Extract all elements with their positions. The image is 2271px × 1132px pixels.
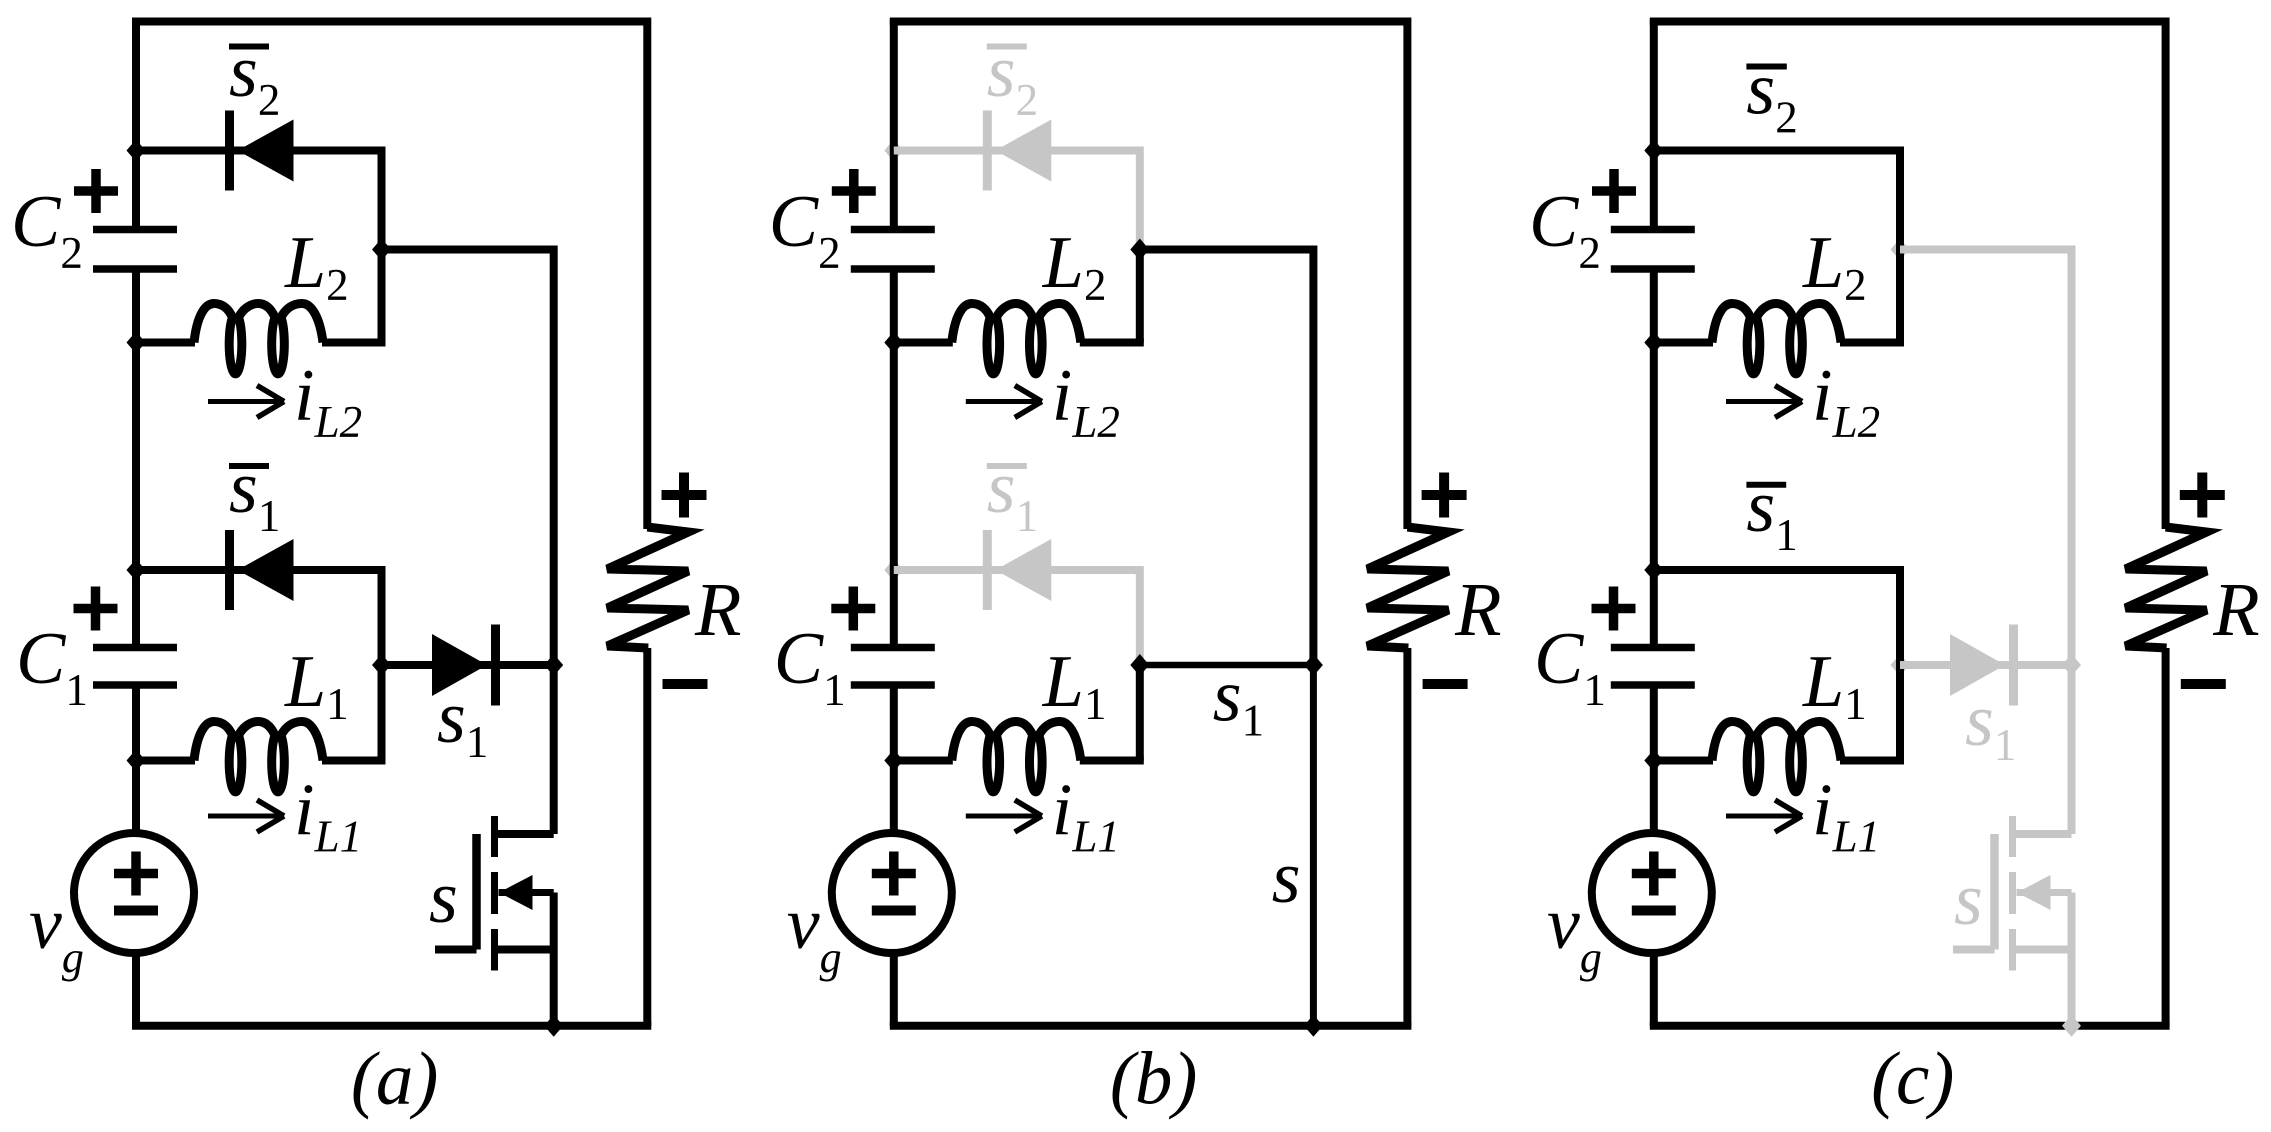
node junction (b)	[1130, 239, 1149, 261]
node junction (a)	[127, 332, 146, 354]
node junction (b)	[884, 332, 903, 354]
wire: right rail top (c)	[2162, 18, 2170, 530]
wire: bottom rail (b)	[890, 1022, 1412, 1030]
svg-text:(c): (c)	[1871, 1038, 1954, 1121]
inductor L2 (b)	[894, 339, 953, 347]
wire: s-bar-2 branch (b)	[894, 147, 1140, 155]
wire: corner column lower (a)	[378, 566, 386, 761]
wire: source to bottom (b)	[890, 950, 898, 1026]
svg-text:R: R	[694, 568, 741, 652]
label R plus terminal (a)	[662, 490, 707, 500]
wire: left rail top (b)	[890, 20, 898, 230]
wire: left rail top (c)	[1650, 20, 1658, 230]
capacitor C1 (c)	[1611, 644, 1695, 652]
label R plus terminal (c)	[2180, 490, 2225, 500]
wire: s-bar-2 branch (a)	[136, 147, 382, 155]
wire: s1 branch (a)	[382, 661, 554, 669]
node junction gray (b)	[884, 140, 903, 162]
wire: left rail top (a)	[132, 20, 140, 230]
label C1 (b)	[831, 604, 875, 614]
wire: left rail to source (a)	[132, 685, 140, 836]
label i_L2 with arrow (b)	[966, 399, 1039, 404]
diode s-bar-2 (b)	[983, 111, 992, 191]
svg-text:s: s	[1954, 859, 1983, 941]
label C1 (c)	[1592, 604, 1636, 614]
transistor s: gate bar and gate lead	[472, 834, 481, 950]
wire: top rail (b)	[890, 18, 1408, 26]
label C1 (a)	[74, 604, 118, 614]
svg-text:s: s	[1272, 837, 1301, 919]
transistor s: channel bars	[2009, 816, 2016, 857]
wire: source to bottom (a)	[132, 950, 140, 1026]
wire: right rail bottom (a)	[643, 648, 651, 1026]
wire: node2 row to mid column (b)	[1140, 246, 1314, 254]
wire: s-bar-1 branch (c)	[1654, 566, 1900, 574]
wire: right rail bottom (b)	[1403, 648, 1411, 1026]
wire: right rail top (a)	[643, 18, 651, 530]
inductor L2 (a)	[136, 339, 195, 347]
transistor s: body-diode arrow	[2017, 889, 2072, 896]
wire: source to bottom node (a)	[550, 893, 558, 1026]
wire: mid column gray (c)	[2068, 665, 2076, 834]
wire: corner column upper (a)	[378, 147, 386, 343]
inductor L1 (b)	[894, 757, 953, 765]
capacitor C1 (a)	[93, 644, 177, 652]
transistor s: gate bar and gate lead	[1990, 834, 1999, 950]
wire: node2 row to mid column (c)	[1900, 246, 2072, 254]
capacitor C2 (a)	[93, 226, 177, 234]
node junction (b)	[1304, 654, 1323, 676]
transistor s: source lead	[2013, 946, 2072, 954]
node junction (b)	[1304, 1015, 1323, 1037]
wire: left rail mid (a)	[132, 269, 140, 648]
wire: s-bar-2 branch (c)	[1654, 147, 1900, 155]
label R minus terminal (a)	[663, 679, 708, 689]
svg-text:R: R	[1454, 568, 1501, 652]
wire: closed switch s (b)	[1310, 665, 1317, 1026]
node junction (a)	[372, 654, 391, 676]
node junction (a)	[372, 239, 391, 261]
label i_L2 with arrow (c)	[1726, 399, 1799, 404]
diode s-bar-1 (a)	[225, 530, 234, 610]
wire: left rail to source (c)	[1650, 685, 1658, 836]
node junction (c)	[1644, 750, 1663, 772]
label i_L2 with arrow (a)	[208, 399, 281, 404]
source vg (a)	[74, 833, 194, 953]
node junction (c)	[1644, 559, 1663, 581]
resistor R (c)	[2126, 527, 2207, 648]
diode s1 (gray, c)	[1950, 634, 2005, 696]
capacitor C2 (c)	[1611, 226, 1695, 234]
label s-bar-2 (c)	[1746, 64, 1786, 70]
wire: right rail bottom (c)	[2162, 648, 2170, 1026]
wire: bottom rail (a)	[132, 1022, 651, 1030]
transistor s: source lead	[495, 946, 554, 954]
label R minus terminal (b)	[1423, 679, 1468, 689]
wire: node2 row to mid column (a)	[382, 246, 554, 254]
diode s1 (a)	[432, 634, 487, 696]
node junction gray (b)	[884, 559, 903, 581]
label s-bar-1 (a)	[229, 463, 269, 469]
wire: s1 branch (b)	[1140, 662, 1314, 669]
label i_L1 with arrow (b)	[966, 814, 1039, 819]
transistor s: body-diode arrow	[499, 889, 554, 896]
label C2 (a)	[74, 186, 118, 196]
capacitor C1 (b)	[851, 644, 935, 652]
label R minus terminal (c)	[2181, 679, 2226, 689]
transistor s: drain lead	[2013, 830, 2072, 838]
transistor s: channel bars	[491, 816, 498, 857]
wire: corner column lower (b)	[1136, 566, 1144, 665]
svg-text:R: R	[2212, 568, 2259, 652]
node junction gray (c)	[2062, 654, 2081, 676]
inductor L1 (a)	[136, 757, 195, 765]
wire: s-bar-1 branch (b)	[894, 566, 1140, 574]
svg-text:(a): (a)	[351, 1038, 438, 1121]
node junction (c)	[1644, 332, 1663, 354]
label s-bar-1 (b)	[987, 463, 1027, 469]
label i_L1 with arrow (a)	[208, 814, 281, 819]
wire: left rail mid (b)	[890, 269, 898, 648]
transistor s: drain lead	[495, 830, 554, 838]
wire: mid column upper (a)	[550, 246, 558, 666]
transistor s (MOSFET, a)	[550, 665, 558, 834]
resistor R (b)	[1367, 527, 1448, 648]
node junction (a)	[127, 140, 146, 162]
node junction gray (c)	[1891, 239, 1910, 261]
wire: s1 branch (c)	[1900, 661, 2072, 669]
label R plus terminal (b)	[1422, 490, 1467, 500]
node junction (a)	[544, 654, 563, 676]
node junction (c)	[2062, 1015, 2081, 1037]
diode s-bar-1 (b)	[983, 530, 992, 610]
source vg (c)	[1592, 833, 1712, 953]
diode s-bar-2 (a)	[225, 111, 234, 191]
label s-bar-1 (c)	[1746, 482, 1786, 488]
label s-bar-2 (a)	[229, 44, 269, 50]
wire: top rail (c)	[1650, 18, 2166, 26]
node junction (c)	[1644, 140, 1663, 162]
wire: corner column upper (b)	[1136, 147, 1144, 250]
capacitor C2 (b)	[851, 226, 935, 234]
node junction (a)	[127, 559, 146, 581]
inductor L2 (c)	[1654, 339, 1713, 347]
node junction (a)	[127, 750, 146, 772]
wire: corner column upper (c)	[1896, 147, 1904, 343]
inductor L1 (c)	[1654, 757, 1713, 765]
node junction (b)	[884, 750, 903, 772]
resistor R (a)	[607, 527, 688, 648]
wire: bottom rail (c)	[1650, 1022, 2170, 1030]
wire: mid column upper (c)	[2068, 246, 2076, 666]
node junction (b)	[1130, 654, 1149, 676]
wire: s-bar-1 branch (a)	[136, 566, 382, 574]
label s-bar-2 (b)	[987, 44, 1027, 50]
wire: corner column lower (c)	[1896, 566, 1904, 761]
source vg (b)	[832, 833, 952, 953]
wire: source to bottom (c)	[1650, 950, 1658, 1026]
wire: mid column upper (b)	[1309, 246, 1317, 666]
label C2 (b)	[832, 186, 876, 196]
svg-text:(b): (b)	[1110, 1038, 1197, 1121]
svg-text:s: s	[429, 857, 458, 939]
node junction (a)	[544, 1015, 563, 1037]
wire: top rail (a)	[132, 18, 647, 26]
wire: left rail to source (b)	[890, 685, 898, 836]
wire: right rail top (b)	[1403, 18, 1411, 530]
label i_L1 with arrow (c)	[1726, 814, 1799, 819]
node junction gray (c)	[1891, 654, 1910, 676]
wire: left rail mid (c)	[1650, 269, 1658, 648]
label C2 (c)	[1592, 186, 1636, 196]
